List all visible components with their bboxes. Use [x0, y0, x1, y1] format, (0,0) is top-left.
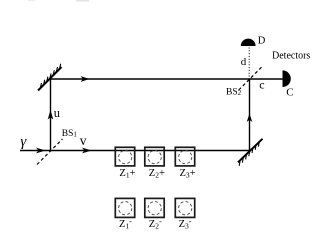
- svg-text:C: C: [286, 87, 293, 99]
- svg-text:Z3+: Z3+: [180, 168, 196, 180]
- svg-text:u: u: [54, 106, 61, 120]
- svg-text:Z1+: Z1+: [119, 168, 135, 180]
- svg-text:c: c: [259, 77, 264, 91]
- svg-text:Detectors: Detectors: [272, 51, 310, 62]
- svg-text:d: d: [241, 56, 247, 68]
- svg-text:BS1: BS1: [62, 129, 78, 139]
- svg-text:BS2: BS2: [226, 88, 242, 98]
- svg-text:Z2+: Z2+: [149, 168, 165, 180]
- svg-text:D: D: [258, 36, 266, 47]
- svg-text:v: v: [80, 133, 87, 148]
